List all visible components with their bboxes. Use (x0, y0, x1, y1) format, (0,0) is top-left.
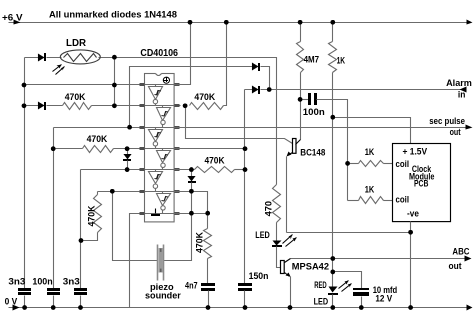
diode D2 (39, 103, 44, 109)
node out4/diode (125, 167, 130, 172)
op-amp/inverter U1-3 (149, 128, 163, 149)
svg-text:PCB: PCB (414, 178, 428, 188)
svg-text:3n3: 3n3 (63, 276, 80, 287)
svg-text:150n: 150n (249, 271, 269, 282)
IC pin row 3 wires/pads (139, 148, 181, 150)
node 4M7/100n/collector (298, 97, 303, 102)
node out1 (183, 104, 188, 109)
0V rail (9, 307, 471, 309)
op-amp/inverter U1-6 (157, 192, 171, 214)
svg-text:CD40106: CD40106 (140, 48, 178, 59)
IC pin row 2 wires/pads (139, 127, 181, 129)
node out3/diode (125, 146, 130, 151)
svg-text:470K: 470K (65, 92, 86, 103)
wire in3-link row + diode D6 (259, 66, 261, 68)
svg-text:0 V: 0 V (5, 295, 18, 306)
svg-text:in: in (458, 89, 466, 100)
wire 1K node to +1.5V pin (333, 118, 411, 144)
svg-text:BC148: BC148 (300, 146, 325, 157)
node in3/out3 (51, 146, 56, 151)
svg-text:coil: coil (396, 195, 410, 205)
node LDR/in1 riser (112, 55, 117, 60)
resistor 470K (osc2 feedback) (83, 146, 114, 153)
wire ABC out row (291, 258, 467, 260)
node bus/in1 (22, 83, 27, 88)
svg-text:3n3: 3n3 (8, 276, 25, 287)
svg-text:LED: LED (314, 296, 329, 306)
node in6/piezo-left (110, 189, 115, 194)
wire in3 column (53, 128, 55, 289)
wire in3 row (54, 127, 145, 129)
diode D4 (out4 to in6) (191, 170, 193, 177)
node alarm/diode junction (267, 87, 272, 92)
diode D1 (39, 55, 44, 61)
svg-text:100n: 100n (303, 107, 325, 118)
LDR light arrows (53, 65, 62, 72)
svg-text:Alarm: Alarm (446, 77, 472, 88)
capacitor 100n (32, 276, 60, 310)
wire -ve pin (410, 222, 412, 308)
resistor 470K vertical right (207, 214, 209, 229)
node coil1 (345, 161, 350, 166)
resistor 1K coil lower (348, 200, 359, 202)
IC pin row 1 wires/pads (139, 105, 181, 107)
transistor Q1 BC148 (293, 139, 297, 154)
svg-text:sounder: sounder (145, 290, 181, 301)
IC pin row 4 wires/pads (139, 169, 181, 171)
wire riser LDR to in1 (114, 58, 116, 106)
wire LDR row (25, 58, 277, 185)
wire out1 to BC148 base (186, 106, 293, 144)
svg-text:470K: 470K (194, 92, 215, 103)
svg-text:470: 470 (263, 201, 273, 217)
svg-text:+6 V: +6 V (2, 11, 23, 22)
resistor 470 (273, 185, 281, 223)
resistor 1K (top) (331, 20, 336, 25)
LED D8 red (329, 287, 338, 293)
svg-text:4n7: 4n7 (185, 281, 198, 292)
resistor 470K (to +6V) (190, 103, 224, 110)
wire out4 row left (81, 169, 145, 171)
diode D3 (127, 149, 129, 155)
wire out3 row left (54, 148, 145, 150)
resistor 470K vertical left (97, 192, 99, 195)
op-amp/inverter U1-1 (149, 85, 163, 106)
wire in3 top link (130, 67, 253, 128)
svg-text:470K: 470K (205, 155, 225, 166)
IC VDD symbol (163, 77, 169, 83)
svg-text:470K: 470K (195, 232, 205, 253)
ground (IC VSS) (155, 209, 157, 214)
IC pin row 6 wires/pads (139, 213, 181, 215)
svg-text:out: out (450, 127, 461, 137)
node bus/out1-row (22, 104, 27, 109)
svg-text:470K: 470K (87, 134, 108, 145)
capacitor 150n (238, 283, 252, 286)
LDR (60, 50, 100, 64)
capacitor 3n3 (63, 276, 87, 310)
node out3/alarm column (243, 146, 248, 151)
wire piezo right column (164, 192, 192, 261)
capacitor 100n (timebase) (301, 99, 309, 101)
clock module PCB box (393, 144, 451, 222)
IC U1 box (145, 74, 175, 222)
wire emitter row to -ve (287, 232, 411, 234)
transistor Q2 MPSA42 (277, 247, 281, 268)
wire in6 row left (98, 191, 145, 193)
wire in1 row (25, 84, 145, 86)
capacitor 10mfd (333, 272, 362, 289)
wire out4 right + resistor 470K (175, 169, 195, 171)
wire alarm row + diode D5 (245, 89, 467, 91)
svg-text:470K: 470K (87, 205, 97, 226)
svg-text:RED: RED (314, 280, 327, 290)
svg-text:+ 1.5V: + 1.5V (403, 146, 428, 156)
junction dots overlay (22, 20, 413, 310)
node out4-470K/alarm column (243, 167, 248, 172)
svg-text:coil: coil (396, 159, 410, 169)
svg-text:MPSA42: MPSA42 (292, 261, 329, 272)
node LED/cap branch (331, 270, 336, 275)
wire out4 drop column (80, 170, 82, 289)
svg-text:100n: 100n (32, 276, 53, 287)
wire VDD to rail (175, 23, 191, 85)
svg-text:1K: 1K (365, 185, 375, 195)
wire left bus (24, 58, 26, 289)
node 470K-bottom (79, 238, 84, 243)
wire out6 row right (175, 213, 208, 215)
node 470K/rail (224, 20, 229, 25)
node -ve/emitter row (408, 230, 413, 235)
resistor 1K coil upper (348, 163, 359, 165)
wire sec pulse row (175, 127, 469, 129)
svg-text:12 V: 12 V (375, 293, 393, 303)
svg-text:-ve: -ve (407, 208, 419, 218)
svg-text:ABC: ABC (452, 246, 469, 257)
node 1K/module supply (331, 115, 336, 120)
svg-text:1K: 1K (337, 55, 346, 65)
op-amp/inverter U1-4 (157, 149, 171, 170)
wire VSS to 0V (130, 214, 145, 308)
capacitor 4n7 (201, 283, 215, 286)
op-amp/inverter U1-5 (149, 170, 163, 192)
node VDD/rail (188, 20, 193, 25)
LED D7 (276, 223, 278, 241)
svg-text:sec pulse: sec pulse (429, 116, 465, 126)
op-amp/inverter U1-2 (157, 106, 171, 128)
IC pin row 0 wires/pads (139, 84, 181, 86)
svg-text:All unmarked diodes 1N4148: All unmarked diodes 1N4148 (49, 9, 178, 20)
svg-text:out: out (449, 260, 462, 271)
+6V rail (9, 22, 471, 24)
svg-text:LED: LED (255, 229, 270, 240)
svg-text:1K: 1K (365, 147, 375, 157)
IC notch (156, 73, 162, 76)
wire alarm column (244, 90, 246, 284)
IC pin row 5 wires/pads (139, 191, 181, 193)
wire out3 row right (175, 148, 245, 150)
resistor 4M7 (298, 20, 303, 25)
capacitor 3n3 (8, 276, 31, 310)
resistor 470K (LDR feedback) (63, 103, 92, 110)
node in3/top-wire (127, 125, 132, 130)
svg-text:4M7: 4M7 (304, 55, 320, 65)
wire in6 row right (175, 192, 208, 214)
wire piezo left column (113, 192, 158, 261)
wire out1 row left (25, 105, 145, 107)
piezo sounder (157, 245, 159, 281)
svg-text:LDR: LDR (66, 38, 86, 49)
